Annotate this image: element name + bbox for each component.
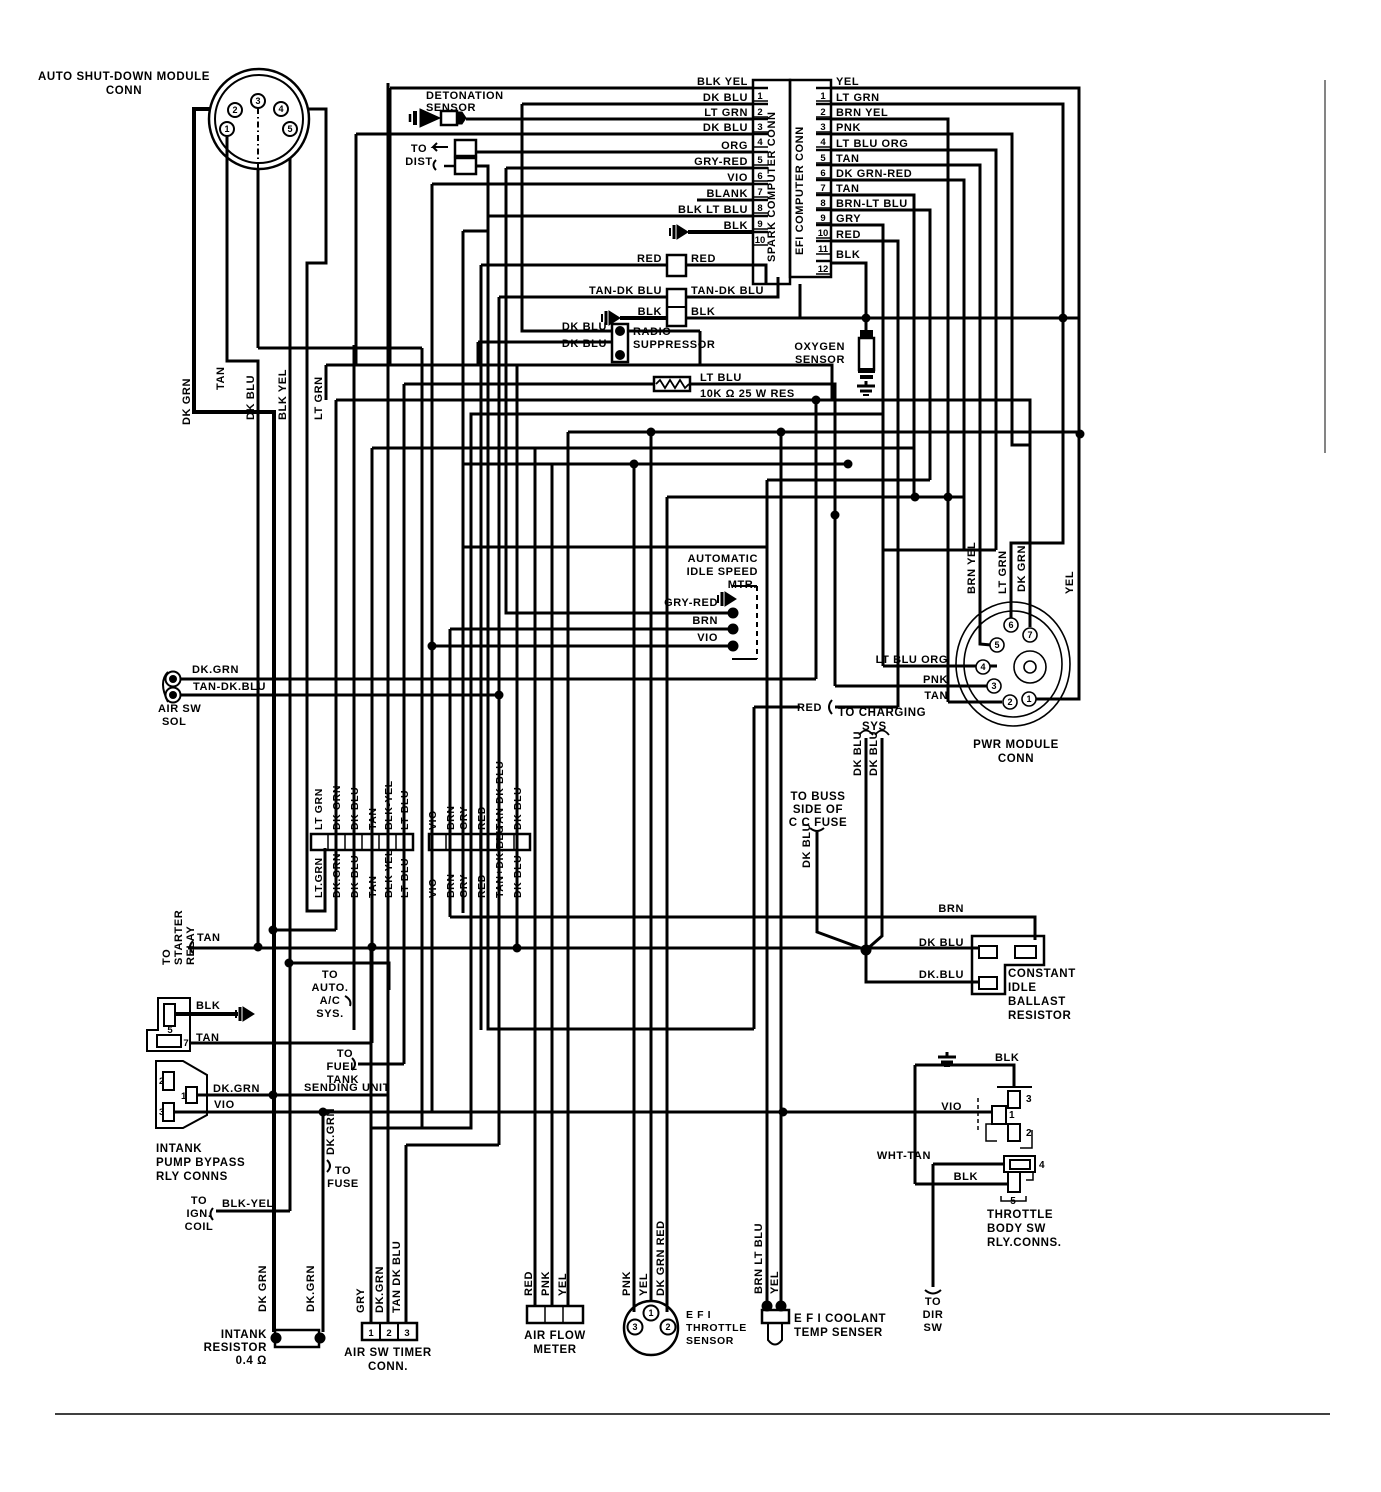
- svg-text:6: 6: [757, 171, 762, 182]
- wire VIO spark pin7: [432, 183, 752, 186]
- svg-text:AUTO.: AUTO.: [311, 982, 348, 994]
- svg-text:1: 1: [224, 124, 229, 134]
- svg-text:TO: TO: [322, 969, 338, 981]
- junction y497 x915: [911, 493, 920, 502]
- spark computer pin 8: [753, 199, 768, 202]
- wire DK BLU down to radio suppressor top: [522, 104, 612, 331]
- junction DK BLU at ballast feed: [861, 945, 872, 956]
- svg-text:GRY: GRY: [355, 1288, 367, 1313]
- junction VIO / DK GRN fuse: [319, 1108, 328, 1117]
- svg-text:3: 3: [632, 1322, 637, 1332]
- svg-text:C C FUSE: C C FUSE: [789, 817, 847, 829]
- wire BRN to AIS motor: [450, 628, 733, 631]
- svg-text:DK BLU: DK BLU: [562, 321, 607, 333]
- wire RED left side: [481, 264, 667, 267]
- connector with pins 5 and 7: [147, 998, 190, 1051]
- wire YEL vertical x781 to coolant sensor: [780, 432, 783, 1306]
- ground at spark pin10: [670, 225, 688, 239]
- wire TAN from ASD pin1 to starter relay line: [227, 137, 258, 947]
- svg-text:DK GRN-RED: DK GRN-RED: [836, 168, 912, 180]
- svg-text:DK BLU: DK BLU: [512, 787, 524, 830]
- svg-text:DK GRN: DK GRN: [257, 1265, 269, 1312]
- svg-text:YEL: YEL: [557, 1273, 569, 1296]
- wire DK BLU jog y348: [258, 347, 422, 350]
- wire ORG dist to spark computer pin 5: [476, 151, 752, 154]
- wire BLK YEL spark pin1 to left boundary: [390, 87, 753, 90]
- wire DK BLU suppressor bottom left: [478, 341, 612, 344]
- spark computer pin 1: [753, 87, 768, 90]
- svg-text:1: 1: [1026, 694, 1031, 704]
- wire vertical to suppressor bottom line: [355, 134, 358, 366]
- wire YEL efi pin1 to pwr module pin1: [831, 88, 1079, 699]
- wire BRN-LT BLU run y480: [767, 479, 930, 482]
- spark computer pin 6: [753, 167, 768, 170]
- efi computer pin 11: [816, 240, 831, 243]
- wire BRN-LT BLU efi pin9 down: [831, 210, 930, 480]
- svg-text:BLANK: BLANK: [707, 188, 749, 200]
- svg-text:DK.GRN: DK.GRN: [305, 1265, 317, 1312]
- spark computer pin 2: [753, 103, 768, 106]
- svg-text:BLK LT BLU: BLK LT BLU: [678, 204, 748, 216]
- intank resistor 0.4 ohm: [275, 1330, 319, 1347]
- svg-text:RESISTOR: RESISTOR: [204, 1342, 267, 1354]
- junction YEL to throttle sensor: [647, 428, 656, 437]
- svg-text:GRY: GRY: [458, 806, 470, 830]
- spark computer pin 3: [753, 118, 768, 121]
- svg-text:DK.BLU: DK.BLU: [919, 969, 964, 981]
- svg-text:4: 4: [1039, 1160, 1045, 1171]
- svg-text:GRY-RED: GRY-RED: [664, 597, 718, 609]
- junction VIO at coolant wire: [779, 1108, 788, 1117]
- detonation sensor: [410, 109, 466, 127]
- wire to fuel tank sending unit: [358, 1063, 404, 1066]
- svg-text:BRN: BRN: [938, 903, 964, 915]
- svg-text:8: 8: [820, 198, 825, 209]
- wire TAN efi pin6 down to pwr module pin5: [831, 165, 991, 645]
- wire GRY timer vertical: [370, 947, 373, 1323]
- svg-text:PUMP BYPASS: PUMP BYPASS: [156, 1157, 245, 1169]
- efi computer pin 6: [816, 164, 831, 167]
- wire BRN strip2 vertical to ballast run: [449, 629, 452, 917]
- svg-text:IDLE: IDLE: [1008, 982, 1037, 994]
- svg-text:1: 1: [757, 91, 763, 102]
- wire BLK YEL from ASD pin4 down to ign coil line: [289, 158, 292, 1211]
- wire LT GRN efi pin2 to pwr module pin6: [831, 104, 1063, 619]
- svg-text:TAN DK BLU: TAN DK BLU: [391, 1241, 403, 1313]
- svg-text:AIR SW TIMER: AIR SW TIMER: [344, 1347, 432, 1359]
- svg-text:SENSOR: SENSOR: [686, 1335, 734, 1347]
- wire DK BLU from ASD pin3 down: [257, 170, 260, 348]
- svg-text:2: 2: [1026, 1128, 1032, 1139]
- bulkhead connector strip 1: [311, 834, 413, 850]
- svg-text:VIO: VIO: [427, 878, 439, 898]
- svg-text:DK BLU: DK BLU: [801, 823, 813, 868]
- svg-text:4: 4: [820, 137, 826, 148]
- wire TAN efi pin8 down: [831, 195, 914, 500]
- spark computer connector: [753, 80, 790, 284]
- junction VIO at AIS branch: [428, 642, 437, 651]
- svg-text:LT GRN: LT GRN: [313, 376, 325, 420]
- wire BLK to pin5: [915, 1183, 1008, 1186]
- svg-text:LT BLU: LT BLU: [700, 372, 742, 384]
- wire DK GRN air sw sol: [181, 678, 816, 681]
- wire DK GRN intank pin1: [197, 1094, 388, 1097]
- svg-text:3: 3: [1026, 1094, 1032, 1105]
- svg-text:TAN: TAN: [836, 183, 860, 195]
- wire DK GRN RED throttle sensor vertical: [666, 497, 669, 1312]
- svg-text:3: 3: [820, 122, 825, 133]
- svg-text:TO: TO: [335, 1165, 351, 1177]
- svg-text:9: 9: [757, 219, 762, 230]
- svg-text:TAN: TAN: [367, 807, 379, 830]
- ground at AIS motor: [718, 592, 736, 606]
- wire GRY-RED spark pin6: [506, 167, 752, 170]
- svg-text:THROTTLE: THROTTLE: [987, 1209, 1053, 1221]
- air sw timer connector: [362, 1323, 417, 1340]
- svg-text:4: 4: [757, 137, 763, 148]
- air flow meter connector: [527, 1306, 583, 1323]
- wire to auto a/c sys: [289, 963, 389, 990]
- svg-text:6: 6: [1008, 620, 1013, 630]
- svg-text:E F I: E F I: [686, 1309, 711, 1321]
- svg-text:RED: RED: [691, 253, 716, 265]
- spark computer pin 10: [753, 231, 768, 234]
- svg-text:SENSOR: SENSOR: [426, 102, 476, 114]
- intank pump bypass relay connector: [156, 1061, 207, 1128]
- pwr module connector: [956, 602, 1070, 726]
- svg-text:DETONATION: DETONATION: [426, 90, 504, 102]
- wire strip1 LT BLU vertical to fuel tank: [403, 384, 406, 1064]
- wire vertical x422 long: [421, 348, 424, 1128]
- svg-text:DK BLU: DK BLU: [852, 731, 864, 776]
- svg-text:TAN: TAN: [836, 153, 860, 165]
- svg-text:LT BLU ORG: LT BLU ORG: [836, 138, 908, 150]
- svg-text:TO BUSS: TO BUSS: [790, 791, 845, 803]
- svg-text:BRN: BRN: [445, 805, 457, 830]
- radio suppressor: [612, 324, 628, 362]
- svg-text:YEL: YEL: [836, 76, 859, 88]
- svg-text:RED: RED: [476, 806, 488, 830]
- svg-text:LT.GRN: LT.GRN: [313, 857, 325, 898]
- wire DK GRN-RED efi pin7 down: [831, 180, 964, 550]
- wire TAN-DK BLU right into efi conn bottom: [686, 277, 778, 297]
- junction y497 x948: [944, 493, 953, 502]
- svg-text:TAN: TAN: [924, 690, 948, 702]
- wire throttle body left vertical: [914, 1065, 917, 1184]
- svg-text:TO: TO: [191, 1195, 207, 1207]
- svg-text:BLK: BLK: [196, 1000, 220, 1012]
- svg-text:3: 3: [757, 122, 762, 133]
- svg-text:BLK: BLK: [691, 306, 715, 318]
- junction on LT BLU vertical: [831, 511, 840, 520]
- wire PNK throttle sensor vertical: [633, 464, 636, 1312]
- svg-text:GRY: GRY: [458, 874, 470, 898]
- svg-text:3: 3: [159, 1107, 164, 1118]
- svg-text:TAN+DK.BLU: TAN+DK.BLU: [494, 825, 506, 898]
- wire BRN to ballast resistor: [450, 917, 1035, 940]
- svg-text:RLY.CONNS.: RLY.CONNS.: [987, 1237, 1062, 1249]
- brace under to-charging-sys: [859, 731, 889, 736]
- svg-text:LT GRN: LT GRN: [313, 788, 325, 830]
- svg-text:1: 1: [820, 91, 826, 102]
- wire detonation sensor to spark computer pin 3: [466, 118, 753, 121]
- wire LT BLU ORG efi pin5 down: [831, 150, 996, 550]
- wire DK BLU spark pin4: [356, 133, 753, 136]
- auto shut-down module connector J1: [209, 69, 309, 169]
- AIS motor terminal VIO: [728, 641, 739, 652]
- wire run y547: [463, 546, 767, 549]
- page bottom rule: [55, 1413, 1330, 1415]
- svg-text:RED: RED: [637, 253, 662, 265]
- spark computer pin 4: [753, 133, 768, 136]
- throttle body pin 1: [978, 1098, 1006, 1130]
- svg-text:7: 7: [1027, 630, 1032, 640]
- wire bus run y400: [336, 400, 1030, 512]
- AIS motor terminal BRN: [728, 624, 739, 635]
- svg-text:2: 2: [386, 1328, 391, 1339]
- svg-text:BALLAST: BALLAST: [1008, 996, 1066, 1008]
- svg-text:3: 3: [255, 96, 260, 106]
- efi computer pin 12: [816, 260, 831, 263]
- svg-text:WHT-TAN: WHT-TAN: [877, 1150, 931, 1162]
- wire LT BLU ORG into pwr pin4: [883, 665, 997, 668]
- svg-text:PNK: PNK: [836, 122, 861, 134]
- svg-text:DK BLU: DK BLU: [703, 92, 748, 104]
- svg-text:VIO: VIO: [941, 1101, 962, 1113]
- svg-text:STARTER: STARTER: [173, 910, 185, 965]
- junction DK GRN y930: [269, 926, 278, 935]
- svg-text:TO: TO: [925, 1296, 941, 1308]
- svg-text:3: 3: [991, 681, 996, 691]
- svg-text:SENSOR: SENSOR: [795, 354, 845, 366]
- wire GRY strip2 vertical: [462, 231, 465, 913]
- svg-text:BLK-YEL: BLK-YEL: [222, 1198, 274, 1210]
- efi computer pin 10: [816, 224, 831, 227]
- svg-text:RED: RED: [836, 229, 861, 241]
- junction TAN-DK BLU strip2: [495, 691, 504, 700]
- efi computer pin 1: [816, 87, 831, 90]
- svg-text:BRN: BRN: [445, 873, 457, 898]
- svg-text:5: 5: [820, 153, 826, 164]
- ground at pin5 wire: [236, 1007, 254, 1021]
- svg-text:10: 10: [755, 235, 766, 246]
- svg-text:METER: METER: [533, 1344, 576, 1356]
- svg-text:CONN.: CONN.: [368, 1361, 408, 1373]
- svg-text:PWR MODULE: PWR MODULE: [973, 739, 1059, 751]
- wire DK BLU charging 1 down: [865, 738, 868, 950]
- svg-text:TAN-DK.BLU: TAN-DK.BLU: [193, 681, 266, 693]
- svg-text:CONN: CONN: [106, 85, 142, 97]
- svg-text:TAN: TAN: [215, 366, 227, 390]
- svg-text:IDLE SPEED: IDLE SPEED: [687, 566, 758, 578]
- svg-text:BLK: BLK: [954, 1171, 978, 1183]
- svg-text:RESISTOR: RESISTOR: [1008, 1010, 1071, 1022]
- wire BLK efi pin12 down to oxygen sensor: [831, 263, 866, 332]
- wire TAN DK BLU timer vertical: [405, 1145, 408, 1324]
- svg-text:BRN YEL: BRN YEL: [966, 542, 978, 594]
- wire BRN LT BLU coolant vertical: [766, 480, 769, 1306]
- wire dist lower stub: [444, 165, 455, 168]
- wire jog y231 to GRY vertical: [463, 230, 488, 233]
- svg-text:5: 5: [167, 1025, 173, 1036]
- wire TAN-DK BLU vertical via strip2: [498, 297, 501, 1145]
- svg-text:5: 5: [757, 155, 763, 166]
- svg-text:7: 7: [820, 183, 825, 194]
- svg-text:BRN YEL: BRN YEL: [836, 107, 888, 119]
- svg-text:DK BLU: DK BLU: [349, 787, 361, 830]
- bulkhead connector strip 2: [429, 834, 530, 850]
- svg-text:1: 1: [368, 1328, 374, 1339]
- svg-text:2: 2: [159, 1076, 164, 1087]
- junction PNK to throttle sensor: [630, 460, 639, 469]
- wire RED efi pin11 down to charging sys: [831, 241, 898, 707]
- wire DK BLU to ballast lower pin: [866, 950, 979, 982]
- junction BLK / LT GRN crossing: [1059, 314, 1068, 323]
- svg-text:SYS.: SYS.: [316, 1008, 343, 1020]
- wire RED charging right segment: [835, 706, 898, 709]
- resistor 10K 25W: [654, 377, 690, 391]
- svg-text:LT GRN: LT GRN: [704, 107, 748, 119]
- wire TAN/DK BLU long line y948: [188, 947, 979, 950]
- svg-text:PNK: PNK: [621, 1271, 633, 1296]
- spark computer pin 7: [753, 183, 768, 186]
- svg-text:COIL: COIL: [185, 1221, 214, 1233]
- svg-text:5: 5: [994, 640, 999, 650]
- wire BRN YEL efi pin3 down x948: [831, 119, 948, 702]
- svg-text:10K Ω 25 W RES: 10K Ω 25 W RES: [700, 388, 795, 400]
- svg-text:INTANK: INTANK: [156, 1143, 202, 1155]
- svg-text:LT GRN: LT GRN: [997, 550, 1009, 594]
- wire PNK into pwr pin3: [835, 685, 994, 688]
- junction BLK line at oxygen sensor: [862, 314, 871, 323]
- wire RED charging left segment: [754, 706, 800, 709]
- svg-text:DK.GRN: DK.GRN: [325, 1108, 337, 1155]
- wire bus run y448: [372, 447, 914, 450]
- wire BLK branch up to efi conn bottom: [799, 284, 802, 318]
- wire TAN pin7 to vertical: [190, 1042, 372, 1045]
- junction y464 end: [844, 460, 853, 469]
- connector RED in-line: [667, 255, 686, 276]
- junction at starter line: [368, 943, 377, 952]
- ground at BLK connector: [602, 311, 620, 325]
- svg-text:AIR SW: AIR SW: [158, 703, 201, 715]
- svg-text:PNK: PNK: [540, 1271, 552, 1296]
- svg-text:10: 10: [818, 228, 829, 239]
- wire run y550 into pwr module: [883, 549, 996, 552]
- svg-text:AUTO SHUT-DOWN MODULE: AUTO SHUT-DOWN MODULE: [38, 71, 210, 83]
- wire DK BLU spark pin2: [522, 103, 752, 106]
- wire BLK YEL / DK GRN long vertical x388: [387, 83, 390, 1324]
- wire bus run y414 down x471 to y1128: [372, 414, 883, 1128]
- wire BLK to ground: [620, 316, 667, 320]
- junction TAN at starter line: [254, 943, 263, 952]
- svg-text:BODY SW: BODY SW: [987, 1223, 1046, 1235]
- wire TAN strip1 vertical: [371, 448, 374, 1043]
- svg-text:DK BLU: DK BLU: [868, 731, 880, 776]
- wire vertical x478: [477, 342, 480, 365]
- junction on y400 run: [812, 396, 821, 405]
- wire TAN into pwr pin2: [948, 701, 1002, 704]
- efi computer pin 7: [816, 179, 831, 182]
- terminal intank resistor right: [315, 1333, 326, 1344]
- svg-text:BLK: BLK: [995, 1052, 1019, 1064]
- wire down to dir sw: [932, 1164, 935, 1287]
- efi computer pin 5: [816, 149, 831, 152]
- svg-text:VIO: VIO: [214, 1099, 235, 1111]
- svg-text:SW: SW: [924, 1322, 943, 1334]
- wire BLANK spark pin8 stub: [697, 199, 752, 202]
- svg-text:5: 5: [287, 124, 292, 134]
- throttle body pin 4: [1004, 1156, 1035, 1172]
- terminal intank resistor left: [271, 1333, 282, 1344]
- svg-text:2: 2: [757, 107, 762, 118]
- wire DK GRN from ASD pin2 down to intank resistor: [194, 109, 274, 1332]
- svg-text:DK BLU: DK BLU: [703, 122, 748, 134]
- junction YEL main vertical: [1076, 430, 1085, 439]
- wire dash-dot through ASD pin3: [257, 108, 259, 170]
- svg-text:2: 2: [665, 1322, 670, 1332]
- svg-text:3: 3: [404, 1328, 409, 1339]
- svg-text:BRN LT BLU: BRN LT BLU: [753, 1223, 765, 1294]
- wire DK GRN-RED run y497: [667, 496, 964, 499]
- svg-text:1: 1: [1009, 1110, 1015, 1121]
- wire BLK long to right: [686, 317, 1080, 320]
- svg-text:0.4 Ω: 0.4 Ω: [236, 1355, 267, 1367]
- svg-text:DK.GRN: DK.GRN: [192, 664, 239, 676]
- svg-text:EFI COMPUTER CONN: EFI COMPUTER CONN: [794, 126, 806, 255]
- svg-text:7: 7: [183, 1038, 188, 1049]
- wire DK GRN strip1 vertical: [335, 400, 338, 930]
- efi computer pin 8: [816, 194, 831, 197]
- svg-text:DK.GRN: DK.GRN: [331, 853, 343, 898]
- efi computer pin 9: [816, 209, 831, 212]
- wire long run y365: [326, 365, 832, 400]
- wire BLK pin5 to ground: [174, 1012, 238, 1016]
- wire LT BLU left of resistor: [404, 383, 654, 386]
- constant idle ballast resistor connector: [972, 936, 1044, 994]
- wire jog x326 to y400: [325, 365, 328, 400]
- wire suppressor top to right: [628, 330, 700, 333]
- wire YEL distribution run y432: [568, 431, 1079, 434]
- svg-text:SENDING UNIT: SENDING UNIT: [304, 1082, 390, 1094]
- wire charging vertical down: [753, 707, 756, 1029]
- svg-text:SOL: SOL: [162, 716, 186, 728]
- svg-text:PNK: PNK: [923, 674, 948, 686]
- wire LT BLU right of resistor down: [690, 384, 835, 686]
- svg-text:FUEL: FUEL: [326, 1061, 357, 1073]
- spark computer pin 5: [753, 151, 768, 154]
- svg-text:2: 2: [820, 107, 825, 118]
- wire RED vertical via strip2: [480, 265, 483, 1030]
- svg-text:BRN: BRN: [692, 615, 718, 627]
- svg-text:DK GRN: DK GRN: [181, 378, 193, 425]
- throttle body pin 2: [1008, 1124, 1020, 1141]
- svg-text:OXYGEN: OXYGEN: [794, 341, 845, 353]
- wire dist lower terminal down and across to charging branch: [476, 166, 754, 1029]
- wire vertical x700: [699, 331, 702, 365]
- junction YEL to coolant sensor: [777, 428, 786, 437]
- junction DK BLU y948: [513, 944, 522, 953]
- air switch solenoid connector: [163, 672, 181, 703]
- svg-text:RLY CONNS: RLY CONNS: [156, 1171, 228, 1183]
- connector TAN-DK BLU / BLK in-line: [667, 289, 686, 326]
- svg-text:DIR: DIR: [923, 1309, 944, 1321]
- svg-text:BLK YEL: BLK YEL: [697, 76, 748, 88]
- wire GRY-RED down to AIS motor: [506, 168, 733, 613]
- svg-text:DK GRN: DK GRN: [1016, 545, 1028, 592]
- svg-text:LT BLU ORG: LT BLU ORG: [876, 654, 948, 666]
- svg-text:11: 11: [818, 244, 829, 255]
